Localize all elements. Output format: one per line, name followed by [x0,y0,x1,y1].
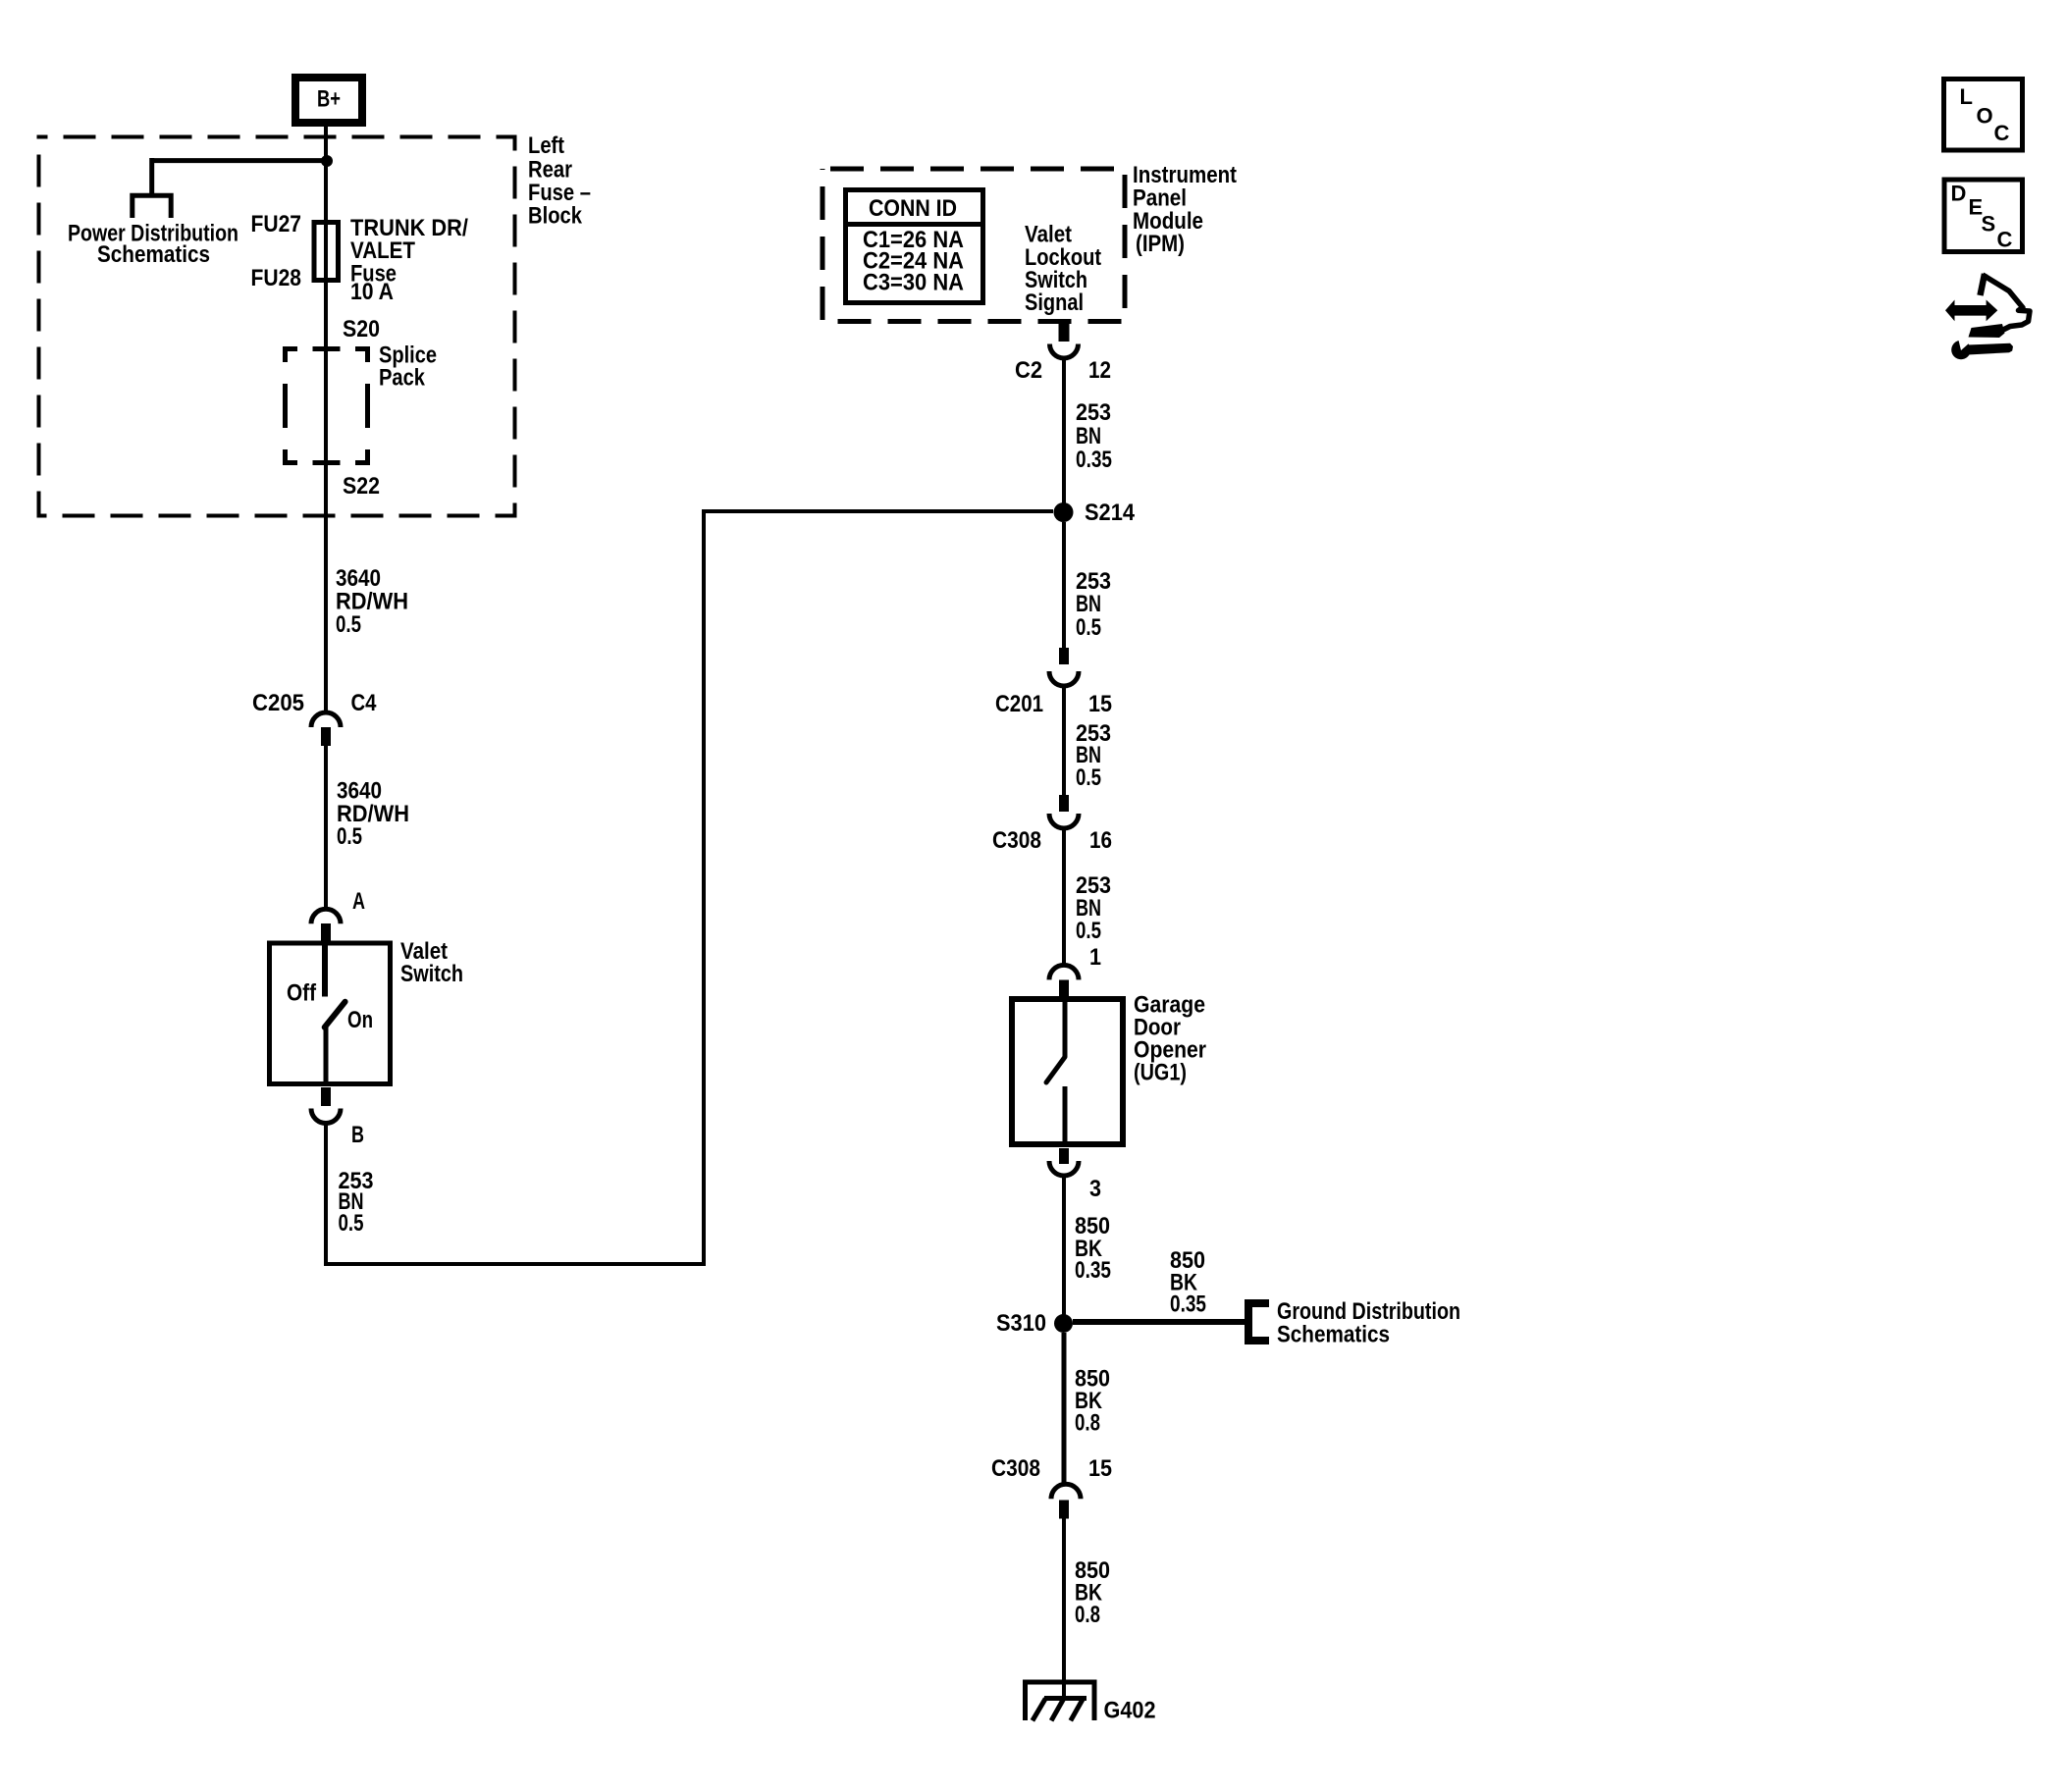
connector C308 pin 15 [1051,1484,1081,1518]
label wire 850 BK 0.35 (branch) [1170,1247,1206,1318]
svg-text:G402: G402 [1104,1698,1156,1724]
wire C308 to garage door opener [1062,828,1066,965]
label wire 253 BN 0.5 (valet output) [339,1168,374,1237]
wire valet B down, right and up to S214 [326,511,1053,1264]
svg-text:12: 12 [1088,357,1111,384]
svg-text:253: 253 [1076,399,1111,426]
svg-text:C308: C308 [992,827,1041,854]
wire drop to off-page symbol [149,158,154,195]
svg-text:Schematics: Schematics [1277,1322,1390,1348]
svg-text:C: C [1994,121,2010,145]
off-page connector symbol (ground distribution) [1248,1303,1269,1341]
label Splice Pack [379,343,437,392]
svg-text:B: B [351,1122,364,1148]
svg-text:S310: S310 [996,1310,1046,1337]
wire junction branch to power distribution [152,158,327,163]
svg-text:C3=30 NA: C3=30 NA [863,270,964,296]
svg-text:C205: C205 [252,690,304,716]
valet switch upper contact [322,943,328,997]
label wire 253 BN 0.5 (S214 to C201) [1076,568,1111,641]
LOC navigation box [1944,79,2023,151]
connector pin A [311,909,341,942]
connector C308 pin 16 [1049,795,1079,828]
valet switch blade [325,1002,345,1028]
svg-text:0.5: 0.5 [1076,764,1101,791]
wire C308 to ground G402 [1062,1518,1066,1698]
svg-text:1: 1 [1089,944,1101,971]
svg-text:Block: Block [528,203,583,230]
svg-text:CONN ID: CONN ID [869,195,957,222]
svg-text:D: D [1951,182,1967,206]
wire fuse to connector C205 [324,283,328,713]
connector opener pin 1 [1049,965,1079,996]
connector opener pin 3 [1049,1148,1079,1176]
label wire 850 BK 0.8 (lower) [1075,1557,1110,1628]
connector C2 pin 12 [1050,323,1079,358]
opener switch lower contact [1063,1086,1068,1144]
wire C205 to valet switch pin A [324,746,328,910]
node junction dot on B+ feed [321,155,333,167]
wire S310 branch to ground distribution [1073,1319,1245,1325]
opener switch upper contact [1063,999,1068,1057]
wire C2 to S214 [1062,357,1066,512]
svg-text:C: C [1997,228,2013,252]
svg-text:Pack: Pack [379,365,426,392]
wire S310 to C308 pin 15 [1062,1333,1067,1484]
svg-text:0.8: 0.8 [1075,1410,1100,1437]
svg-text:FU28: FU28 [251,265,302,291]
svg-text:0.35: 0.35 [1170,1291,1206,1318]
svg-text:10 A: 10 A [350,279,394,305]
label wire 253 BN 0.5 (C201 to C308) [1076,720,1111,791]
svg-text:S22: S22 [343,473,380,500]
svg-text:C308: C308 [991,1455,1040,1482]
svg-text:FU27: FU27 [251,211,302,237]
label Power Distribution Schematics [68,221,238,269]
label wire 3640 RD/WH 0.5 (upper) [336,565,408,638]
svg-text:0.5: 0.5 [336,611,361,638]
node S214 [1054,502,1074,522]
splice pack dashed box [283,346,370,465]
ground G402 [1023,1680,1097,1720]
label Left Rear Fuse Block [528,132,591,230]
svg-text:Off: Off [287,980,317,1007]
svg-text:BN: BN [1076,591,1101,617]
svg-text:0.5: 0.5 [337,823,362,850]
CONN ID table [843,190,985,303]
svg-text:0.8: 0.8 [1075,1602,1100,1628]
svg-text:BN: BN [1076,423,1101,449]
svg-text:S20: S20 [343,316,380,343]
wire C201 to C308 [1062,686,1066,795]
svg-text:C2: C2 [1015,357,1042,384]
wire B+ down to fuse [324,127,328,222]
svg-text:Signal: Signal [1025,290,1084,316]
wire S214 to C201 [1062,522,1066,648]
svg-text:Switch: Switch [400,961,463,987]
svg-text:0.35: 0.35 [1075,1257,1111,1284]
off-page connector symbol (power distribution) [132,195,171,218]
svg-text:16: 16 [1089,827,1112,854]
svg-text:C201: C201 [995,691,1043,717]
svg-text:0.5: 0.5 [1076,614,1101,641]
label wire 253 BN 0.5 (C308 to opener) [1076,872,1111,944]
label wire 850 BK 0.35 (vertical) [1075,1213,1111,1284]
svg-text:0.5: 0.5 [1076,918,1101,944]
svg-text:S: S [1982,212,1996,237]
svg-text:15: 15 [1088,691,1112,717]
label TRUNK DR/ VALET Fuse 10 A [350,215,468,305]
svg-text:S214: S214 [1085,500,1136,526]
opener switch blade [1046,1057,1065,1082]
svg-text:15: 15 [1088,1455,1112,1482]
label wire 3640 RD/WH 0.5 (lower) [337,778,409,851]
connector pin B [311,1087,341,1124]
svg-text:Left: Left [528,132,564,159]
garage door opener box [1012,999,1123,1144]
node S310 [1054,1314,1073,1333]
fuse TRUNK DR/VALET 10A [314,222,339,283]
service action icon (hand with arrow and wrench) [1945,274,2030,359]
instrument panel module dashed box [822,169,1125,322]
label Instrument Panel Module (IPM) [1133,162,1237,257]
label wire 253 BN 0.35 [1076,399,1112,473]
svg-text:A: A [352,888,365,915]
label Valet Switch [400,938,463,987]
valet switch box [270,943,391,1084]
svg-text:(IPM): (IPM) [1136,231,1185,257]
svg-text:B+: B+ [317,86,341,113]
power terminal B+ [295,78,362,123]
svg-text:0.35: 0.35 [1076,447,1112,473]
svg-text:0.5: 0.5 [339,1210,364,1237]
left rear fuse block dashed box [39,137,515,516]
label Valet Lockout Switch Signal [1025,222,1101,317]
svg-text:(UG1): (UG1) [1134,1060,1187,1086]
svg-text:O: O [1977,104,1993,129]
wire opener to S310 [1062,1176,1066,1323]
DESC navigation box [1944,180,2023,252]
label wire 850 BK 0.8 (upper) [1075,1366,1110,1437]
connector C201 pin 15 [1049,648,1079,686]
svg-text:3: 3 [1089,1176,1101,1202]
svg-text:L: L [1960,84,1973,109]
valet switch lower contact [324,1027,329,1086]
svg-text:On: On [347,1007,373,1033]
svg-text:Schematics: Schematics [97,241,210,268]
connector C205/C4 [311,712,341,746]
svg-text:C4: C4 [351,690,378,716]
label Ground Distribution Schematics [1277,1298,1460,1348]
label Garage Door Opener (UG1) [1134,992,1206,1086]
